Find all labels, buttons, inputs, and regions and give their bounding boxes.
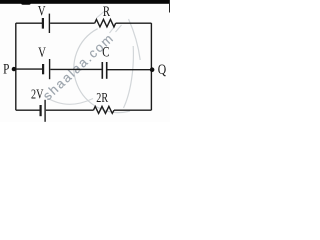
battery V (top branch) long plate	[48, 14, 50, 33]
svg-text:Q: Q	[158, 60, 167, 77]
svg-text:2R: 2R	[96, 89, 108, 105]
resistor R	[95, 19, 116, 27]
battery 2V short plate	[39, 105, 41, 116]
node P junction dot	[12, 67, 16, 71]
wire: bottom branch right	[114, 109, 151, 111]
capacitor C right plate	[106, 62, 108, 79]
svg-text:V: V	[38, 43, 46, 60]
wire: top branch right	[116, 22, 152, 24]
watermark tick 2	[116, 25, 122, 32]
watermark swoosh arc	[129, 19, 141, 60]
svg-text:2V: 2V	[31, 86, 44, 102]
scan artifact: bump under top bar	[21, 0, 31, 5]
scan artifact: top black bar	[0, 0, 170, 4]
watermark tick 3	[97, 12, 105, 19]
wire: right rail	[150, 23, 152, 110]
resistor 2R	[94, 106, 115, 113]
svg-text:V: V	[38, 2, 46, 19]
battery V (top branch) short plate	[42, 18, 44, 29]
wire: middle branch middle (battery to capacitor)	[50, 68, 101, 70]
wire: bottom branch middle	[46, 109, 94, 111]
watermark circle	[74, 29, 130, 113]
watermark inner arc	[124, 46, 134, 108]
scan artifact: right edge line	[169, 0, 170, 13]
watermark tick 1	[110, 27, 115, 34]
wire: middle branch right (capacitor to Q)	[108, 69, 152, 71]
battery V (middle branch) short plate	[42, 64, 44, 74]
wire: top branch middle	[50, 22, 95, 24]
battery V (middle branch) long plate	[49, 59, 51, 79]
watermark underline swoosh below text	[45, 97, 93, 105]
svg-text:C: C	[102, 43, 109, 60]
wire: bottom branch left	[16, 109, 40, 111]
svg-text:R: R	[103, 2, 110, 19]
node Q junction dot	[150, 67, 155, 72]
wire: top branch left	[16, 22, 42, 24]
battery 2V long plate	[44, 100, 46, 122]
svg-text:P: P	[3, 60, 9, 77]
wire: left rail	[15, 23, 17, 110]
wire: middle branch left (P to battery)	[16, 68, 42, 70]
capacitor C left plate	[101, 62, 103, 79]
